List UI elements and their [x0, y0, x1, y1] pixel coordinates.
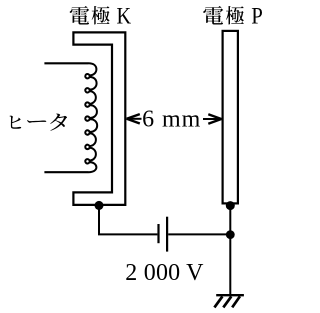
svg-text:6 mm: 6 mm — [142, 106, 201, 132]
wire from P down to ground — [229, 204, 231, 295]
svg-text:K: K — [117, 3, 132, 29]
label: ヒータ (heater label) — [9, 114, 67, 131]
wire from K junction down to battery negative — [99, 205, 157, 234]
battery V1: long plate (positive) — [166, 217, 168, 252]
svg-text:2 000 V: 2 000 V — [125, 260, 204, 286]
heater coil L1 — [85, 63, 97, 172]
wire from battery positive to right node — [168, 233, 230, 235]
node: junction dot at battery wire — [226, 230, 235, 239]
battery V1: short plate (negative) — [157, 224, 159, 243]
label: 電極 K (cathode label) — [70, 6, 110, 25]
label: 電極 P (plate label) — [203, 6, 244, 25]
electrode K (bracket shape) — [73, 32, 125, 205]
heater bottom lead wire — [44, 171, 88, 173]
heater top lead wire — [44, 62, 88, 64]
node: junction dot at bottom of electrode P — [226, 201, 235, 210]
dimension arrow right (to P) — [203, 118, 221, 120]
electrode P (vertical plate) — [223, 31, 238, 204]
dimension arrow left (to K) — [127, 118, 142, 120]
ground symbol — [216, 294, 244, 296]
node: junction dot on K bottom arm — [95, 201, 104, 210]
svg-text:P: P — [251, 3, 263, 29]
